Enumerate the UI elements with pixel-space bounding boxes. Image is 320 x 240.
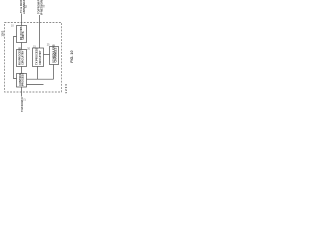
wire W1 antenna label to B1 top [21,14,23,26]
svg-text:CIRCUITRY: CIRCUITRY [21,50,25,65]
wire bus1 B5 to B4 [27,78,54,80]
block B1 (RF transceiver) [17,26,27,43]
svg-text:10: 10 [11,25,14,28]
svg-text:CHANNELS: CHANNELS [54,47,58,62]
svg-text:PROCESS: PROCESS [21,73,25,86]
svg-text:FIG. 10: FIG. 10 [70,51,74,63]
wire W2 B1 to B2 [21,43,23,50]
svg-text:1200: 1200 [64,83,68,94]
wire bus2 B5 to B3 [27,83,44,85]
wire W3 B2 to B5 [21,67,23,74]
svg-text:1202: 1202 [1,30,5,36]
block B5 (controller/processor) [17,74,27,88]
dashed enclosure (base station boundary) [5,23,62,93]
wire W9 B5 bottom external [21,87,23,97]
svg-text:20: 20 [27,48,30,51]
wire W5 B3 bottom drop [37,67,39,80]
svg-text:25: 25 [47,44,50,47]
svg-text:TO/FROM N: TO/FROM N [20,97,24,112]
svg-text:UNITS: UNITS [21,31,25,39]
wire W8 left vertical B1 to B5 [14,37,17,79]
wire W4 network label to B3 top [39,15,41,48]
wire W6 B4 bottom drop [53,65,55,80]
svg-text:CIRCUITRY: CIRCUITRY [38,50,42,65]
block B4 (scheduler) [50,47,59,65]
block B3 (TX processing circuitry) [33,48,44,67]
svg-text:TX PROCESS: TX PROCESS [35,47,39,65]
block B2 (RX processing circuitry) [17,50,27,67]
wire W7 B3 to B4 [44,54,50,56]
svg-text:12: 12 [25,98,27,101]
